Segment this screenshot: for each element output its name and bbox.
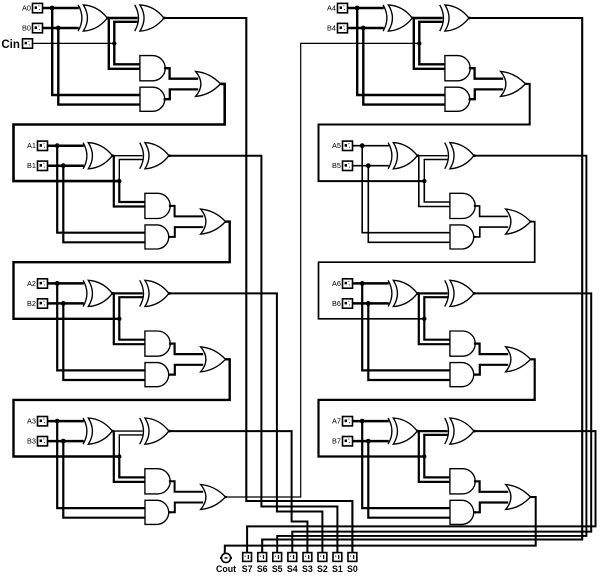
wire A3 feed: [48, 420, 84, 423]
input pin A7: [343, 417, 353, 426]
wire XOR1 output to XOR2 upper input: [412, 17, 442, 19]
node B6 junction: [366, 301, 371, 306]
input pin B7: [343, 437, 353, 446]
wire B1 feed: [48, 164, 84, 167]
wire AND2 output to OR: [470, 89, 503, 99]
wire carry up to XOR2 lower input: [119, 435, 142, 457]
svg-text:A4: A4: [327, 4, 336, 13]
wire carry up to XOR2 lower input: [114, 22, 137, 44]
xor gate XOR2 FA3 (sum): [140, 418, 144, 444]
svg-text:S7: S7: [242, 564, 253, 574]
svg-text:A0: A0: [22, 4, 31, 13]
and gate AND1 FA6: [450, 331, 475, 356]
wire XOR1 output down to AND1 lower input: [419, 431, 451, 482]
node A5 junction: [360, 143, 365, 148]
wire carry up to XOR2 lower input: [419, 22, 442, 44]
wire Cin feed (thin): [33, 42, 114, 44]
and gate AND1 FA2: [145, 331, 170, 356]
svg-text:B3: B3: [27, 437, 36, 446]
wire A4 feed: [348, 7, 384, 10]
and gate AND2 FA5: [450, 225, 474, 249]
input pin A1: [38, 141, 48, 150]
xor gate XOR1 FA4: [383, 5, 387, 31]
wire carry FA1 to FA2 loop: [14, 222, 230, 319]
node B1 junction: [61, 163, 66, 168]
svg-text:A7: A7: [332, 417, 341, 426]
wire AND1 output to OR: [170, 344, 203, 355]
input pin B6: [343, 299, 353, 308]
input pin A3: [38, 417, 48, 426]
node carry junction FA4: [417, 41, 421, 45]
wire AND2 output to OR: [170, 227, 203, 237]
node B2 junction: [61, 301, 66, 306]
wire AND2 output to OR: [170, 365, 203, 375]
wire AND1 output to OR: [165, 68, 198, 79]
wire AND2 output to OR: [475, 503, 508, 513]
node A6 junction: [360, 281, 365, 286]
output pin S4: [288, 553, 297, 562]
svg-text:A5: A5: [332, 141, 341, 150]
input pin A6: [343, 279, 353, 288]
wire B7 branch down to AND2: [368, 441, 450, 518]
wire AND2 output to OR: [170, 503, 203, 513]
node carry junction FA7: [422, 454, 426, 458]
wire B3 feed: [48, 440, 84, 443]
node A4 junction: [355, 6, 360, 11]
wire XOR1 output down to AND1 lower input: [109, 18, 141, 69]
wire sum from FA6 XOR2 to pin S4 (right bus): [292, 293, 591, 552]
and gate AND2 FA6: [450, 363, 474, 387]
xor gate XOR2 FA0 (sum): [135, 5, 139, 31]
wire XOR1 output to XOR2 upper input: [417, 155, 447, 157]
node B7 junction: [366, 439, 371, 444]
node B4 junction: [361, 26, 366, 31]
and gate AND1 FA1: [145, 193, 170, 218]
wire AND1 output to OR: [475, 481, 508, 492]
svg-text:B5: B5: [332, 161, 341, 170]
wire carry FA4 to FA5 loop: [319, 84, 530, 181]
and gate AND2 FA2: [145, 363, 169, 387]
node B5 junction: [366, 163, 371, 168]
or gate OR1 FA3 (carry out): [201, 485, 226, 510]
wire B7 feed: [353, 440, 389, 443]
wire sum S3 from FA3 XOR2 to pin S3: [169, 431, 308, 552]
node carry junction FA1: [117, 179, 121, 183]
wire A6 feed: [353, 282, 389, 285]
svg-text:A6: A6: [332, 279, 341, 288]
wire carry up to XOR2 lower input: [424, 435, 447, 457]
xor gate XOR2 FA7 (sum): [445, 418, 449, 444]
or gate OR1 FA6 (carry out): [506, 347, 531, 372]
xor gate XOR1 FA1: [83, 143, 87, 169]
node carry junction FA5: [422, 179, 426, 183]
wire A5 branch down to AND2: [362, 146, 450, 233]
and gate AND1 FA5: [450, 193, 475, 218]
wire A7 feed: [353, 420, 389, 423]
wire carry down to AND1 upper input: [119, 457, 145, 478]
input pin B4: [338, 23, 348, 32]
wire B2 branch down to AND2: [63, 303, 145, 380]
wire A2 feed: [48, 282, 84, 285]
and gate AND1 FA4: [445, 56, 470, 81]
node carry junction FA3: [117, 454, 121, 458]
and gate AND2 FA3: [145, 500, 169, 524]
wire sum from FA5 XOR2 to pin S5 (right bus): [277, 156, 586, 553]
xor gate XOR1 FA3: [83, 418, 87, 444]
wire B1 branch down to AND2: [63, 166, 145, 243]
input pin B3: [38, 437, 48, 446]
input pin B5: [343, 161, 353, 170]
wire XOR1 output down to AND1 lower input: [414, 18, 446, 69]
wire AND1 output to OR: [475, 344, 508, 355]
xor gate XOR2 FA5 (sum): [445, 143, 449, 169]
wire carry up to XOR2 lower input: [119, 160, 142, 182]
input pin A4: [338, 3, 348, 12]
svg-text:S1: S1: [332, 564, 343, 574]
output pin S5: [273, 553, 282, 562]
or gate OR1 FA2 (carry out): [201, 347, 226, 372]
input pin A5: [343, 141, 353, 150]
wire AND1 output to OR: [475, 206, 508, 217]
node B0 junction: [56, 26, 61, 31]
wire sum from FA7 XOR2 to pin S7 (right bus): [247, 431, 595, 552]
or gate OR1 FA5 (carry out): [506, 209, 531, 234]
or gate OR1 FA4 (carry out): [501, 71, 526, 96]
xor gate XOR1 FA2: [83, 280, 87, 306]
xor gate XOR1 FA0: [78, 5, 82, 31]
xor gate XOR2 FA1 (sum): [140, 143, 144, 169]
wire A5 feed: [353, 145, 389, 147]
xor gate XOR1 FA7: [388, 418, 392, 444]
svg-text:B4: B4: [327, 24, 336, 33]
xor gate XOR1 FA5: [388, 143, 392, 169]
wire XOR1 output down to AND1 lower input: [114, 293, 146, 344]
input pin A0: [33, 3, 43, 12]
node carry junction FA0: [112, 41, 116, 45]
node carry junction FA6: [422, 317, 426, 321]
wire XOR1 output down to AND1 lower input: [114, 156, 146, 207]
wire carry down to AND1 upper input: [419, 43, 445, 64]
xor gate XOR2 FA2 (sum): [140, 280, 144, 306]
wire A3 branch down to AND2: [57, 421, 145, 508]
svg-text:A3: A3: [27, 417, 36, 426]
wire sum from FA4 XOR2 to pin S6 (right bus): [262, 18, 582, 553]
node A0 junction: [50, 6, 55, 11]
output pin S0: [348, 553, 357, 562]
wire A7 branch down to AND2: [362, 421, 450, 508]
wire A4 branch down to AND2: [357, 8, 445, 95]
svg-text:B7: B7: [332, 437, 341, 446]
output pin S2: [318, 553, 327, 562]
wire A1 feed: [48, 144, 84, 147]
and gate AND1 FA7: [450, 469, 475, 494]
svg-text:B2: B2: [27, 299, 36, 308]
wire XOR1 output to XOR2 upper input: [112, 430, 142, 432]
wire B0 feed: [43, 27, 79, 30]
wire B3 branch down to AND2: [63, 441, 145, 518]
or gate OR1 FA1 (carry out): [201, 209, 226, 234]
wire carry up to XOR2 lower input: [119, 297, 142, 319]
wire B2 feed: [48, 302, 84, 305]
wire carry down to AND1 upper input: [119, 181, 145, 202]
wire sum S1 from FA1 XOR2 to pin S1: [169, 156, 338, 553]
wire carry down to AND1 upper input: [424, 319, 450, 340]
wire A2 branch down to AND2: [57, 283, 145, 370]
output pin S6: [258, 553, 267, 562]
wire A0 feed: [43, 7, 79, 10]
and gate AND2 FA1: [145, 225, 169, 249]
wire A0 branch down to AND2: [52, 8, 140, 95]
wire XOR1 output down to AND1 lower input: [114, 431, 146, 482]
wire XOR1 output to XOR2 upper input: [112, 292, 142, 294]
and gate AND2 FA0: [140, 87, 165, 111]
wire B6 feed: [353, 302, 389, 305]
wire carry up to XOR2 lower input: [424, 297, 447, 319]
svg-text:Cin: Cin: [1, 39, 20, 51]
svg-text:A2: A2: [27, 279, 36, 288]
node A7 junction: [360, 419, 365, 424]
wire XOR1 output down to AND1 lower input: [419, 156, 451, 207]
svg-text:S3: S3: [302, 564, 313, 574]
output pin S1: [333, 553, 342, 562]
node carry junction FA2: [117, 317, 121, 321]
svg-text:A1: A1: [27, 141, 36, 150]
wire AND2 output to OR: [475, 365, 508, 375]
node B3 junction: [61, 439, 66, 444]
svg-text:S2: S2: [317, 564, 328, 574]
wire B0 branch down to AND2: [58, 28, 140, 105]
wire XOR1 output to XOR2 upper input: [417, 430, 447, 432]
and gate AND2 FA4: [445, 87, 470, 111]
or gate OR1 FA7 (carry out): [506, 485, 531, 510]
wire XOR1 output to XOR2 upper input: [112, 155, 142, 157]
wire carry FA7 to Cout: [225, 497, 536, 553]
wire B4 branch down to AND2: [363, 28, 445, 105]
input pin A2: [38, 279, 48, 288]
svg-text:B6: B6: [332, 299, 341, 308]
node A3 junction: [55, 419, 60, 424]
xor gate XOR2 FA6 (sum): [445, 280, 449, 306]
wire XOR1 output to XOR2 upper input: [107, 17, 137, 19]
xor gate XOR2 FA4 (sum): [440, 5, 444, 31]
wire carry FA6 to FA7 loop: [319, 359, 535, 456]
wire A1 branch down to AND2: [57, 146, 145, 233]
wire carry up to XOR2 lower input: [424, 160, 447, 182]
output pin S3: [303, 553, 312, 562]
wire sum S2 from FA2 XOR2 to pin S2: [169, 293, 323, 552]
wire B5 branch down to AND2: [368, 166, 450, 243]
wire B5 feed: [353, 165, 389, 167]
input pin B0: [33, 23, 43, 32]
svg-text:S0: S0: [347, 564, 358, 574]
wire carry FA0 to FA1 loop: [14, 84, 225, 181]
wire carry down to AND1 upper input: [424, 457, 450, 478]
wire carry FA3 to FA4 (up middle, thin): [226, 43, 419, 497]
xor gate XOR1 FA6: [388, 280, 392, 306]
wire carry down to AND1 upper input: [114, 43, 140, 64]
svg-text:B0: B0: [22, 24, 31, 33]
node A1 junction: [55, 143, 60, 148]
input pin B1: [38, 161, 48, 170]
svg-text:B1: B1: [27, 161, 36, 170]
wire A6 branch down to AND2: [362, 283, 450, 370]
wire AND2 output to OR: [475, 227, 508, 237]
svg-text:Cout: Cout: [216, 564, 236, 574]
wire B6 branch down to AND2: [368, 303, 450, 380]
wire XOR1 output down to AND1 lower input: [419, 293, 451, 344]
wire B4 feed: [348, 27, 384, 30]
wire AND1 output to OR: [470, 68, 503, 79]
and gate AND1 FA0: [140, 56, 165, 81]
output pin Cout: [221, 553, 230, 562]
and gate AND1 FA3: [145, 469, 170, 494]
wire carry FA5 to FA6 loop: [319, 222, 535, 319]
wire AND1 output to OR: [170, 206, 203, 217]
output pin S7: [243, 553, 252, 562]
wire XOR1 output to XOR2 upper input: [417, 292, 447, 294]
wire AND2 output to OR: [165, 89, 198, 99]
and gate AND2 FA7: [450, 500, 474, 524]
wire carry down to AND1 upper input: [119, 319, 145, 340]
input pin B2: [38, 299, 48, 308]
wire AND1 output to OR: [170, 481, 203, 492]
svg-text:S4: S4: [287, 564, 298, 574]
svg-text:S5: S5: [272, 564, 283, 574]
input pin Cin: [23, 39, 33, 48]
wire carry down to AND1 upper input: [424, 181, 450, 202]
wire carry FA2 to FA3 loop: [14, 359, 230, 456]
node A2 junction: [55, 281, 60, 286]
svg-text:S6: S6: [257, 564, 268, 574]
wire sum S0 from FA0 XOR2 to pin S0: [164, 18, 353, 553]
or gate OR1 FA0 (carry out): [196, 71, 221, 96]
